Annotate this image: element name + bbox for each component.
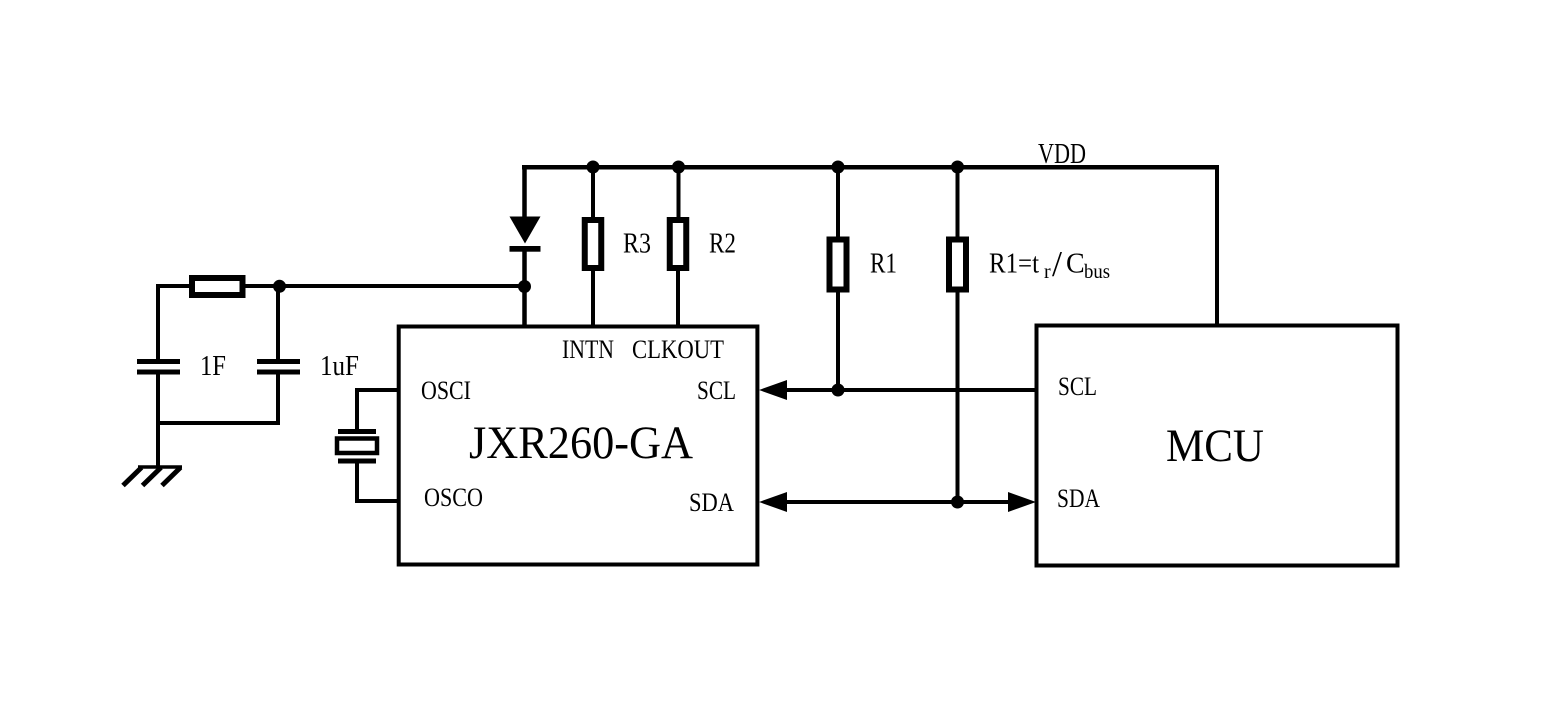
wire R1a top (836, 167, 840, 240)
svg-text:R1=t: R1=t (989, 249, 1039, 280)
junction dot rail R2 (672, 161, 685, 174)
junction dot at 1uF tap (273, 280, 286, 293)
wire left to resistor (158, 284, 192, 288)
wire bottom joining rail (156, 421, 280, 425)
svg-text:R2: R2 (709, 229, 736, 260)
crystal resonator (338, 429, 376, 434)
arrowhead SDA left (759, 492, 787, 512)
chip JXR260-GA box (399, 327, 758, 565)
svg-text:INTN: INTN (562, 335, 614, 364)
junction dot rail R1b (951, 161, 964, 174)
svg-text:C: C (1066, 249, 1085, 280)
wire diode top (522, 165, 527, 219)
arrowhead SCL left (759, 380, 787, 400)
capacitor 1uF (257, 359, 300, 364)
svg-text:OSCO: OSCO (424, 483, 483, 512)
resistor R2 (670, 220, 687, 268)
resistor R3 (585, 220, 602, 268)
wire R1b bottom to SDA (956, 289, 960, 502)
wire SDA (785, 500, 1010, 504)
svg-text:bus: bus (1084, 261, 1110, 283)
wire OSCI pin horizontal (357, 388, 399, 392)
svg-text:1F: 1F (200, 351, 226, 382)
junction dot rail R1a (832, 161, 845, 174)
svg-text:JXR260-GA: JXR260-GA (469, 417, 693, 469)
svg-text:VDD: VDD (1038, 139, 1086, 170)
wire diode to INTN pin (522, 249, 527, 328)
svg-text:SCL: SCL (697, 376, 736, 405)
svg-text:1uF: 1uF (320, 351, 359, 382)
svg-text:SDA: SDA (1057, 484, 1100, 513)
wire crystal top vertical (355, 388, 359, 432)
capacitor 1F (137, 359, 180, 364)
wire R2 bottom (676, 269, 680, 328)
wire crystal bottom vertical (355, 459, 359, 503)
junction dot diode-backup node (518, 280, 531, 293)
arrowhead SDA right (1008, 492, 1036, 512)
wire R3 bottom (591, 269, 595, 328)
resistor R1 (SDA pullup) (949, 240, 966, 290)
wire R1b top (956, 167, 960, 240)
junction dot SDA/R1b (951, 496, 964, 509)
svg-text:SCL: SCL (1058, 372, 1097, 401)
svg-text:SDA: SDA (689, 488, 734, 517)
svg-text:CLKOUT: CLKOUT (632, 335, 724, 364)
ground (138, 465, 182, 469)
junction dot SCL/R1a (832, 384, 845, 397)
wire resistor to junction (245, 284, 524, 288)
wire R1a bottom to SCL (836, 289, 840, 390)
wire R2 top (677, 167, 681, 221)
diode (VDD to backup node) (510, 217, 541, 244)
wire R3 top (591, 167, 595, 221)
svg-text:MCU: MCU (1166, 420, 1264, 472)
wire 1F bottom to ground rail (156, 374, 160, 468)
svg-text:/: / (1052, 244, 1062, 284)
wire OSCO pin horizontal (357, 499, 399, 503)
resistor horizontal (backup series) (192, 278, 243, 295)
wire SCL (785, 388, 1037, 392)
wire left cap top (156, 284, 160, 360)
wire VDD top rail (522, 165, 1219, 170)
svg-text:OSCI: OSCI (421, 376, 471, 405)
chip MCU box (1037, 326, 1398, 566)
wire VDD rail drop to MCU (1215, 167, 1219, 327)
wire 1uF bottom (276, 374, 280, 423)
svg-text:r: r (1044, 261, 1051, 283)
junction dot rail R3 (587, 161, 600, 174)
wire 1uF top (276, 286, 280, 360)
svg-text:R1: R1 (870, 249, 897, 280)
svg-text:R3: R3 (623, 229, 651, 260)
resistor R1 (SCL pullup) (830, 240, 847, 290)
